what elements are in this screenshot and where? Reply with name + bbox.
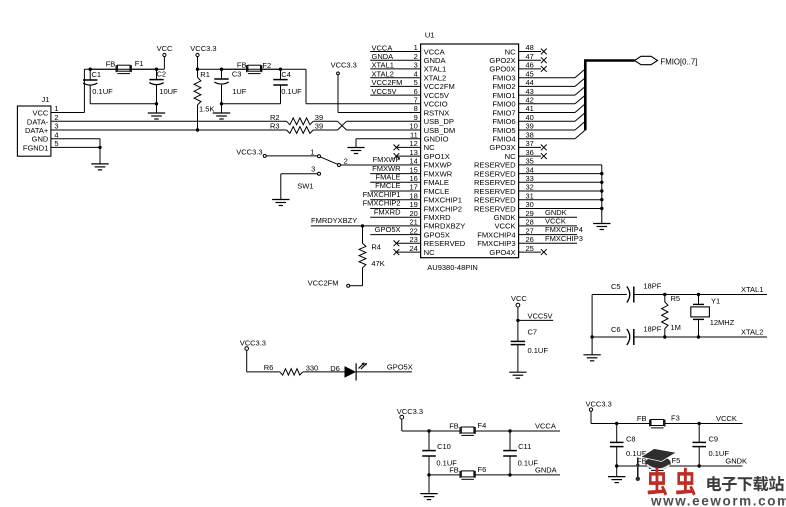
svg-text:8: 8 (414, 104, 418, 113)
wire C8 to ground (616, 466, 618, 477)
capacitor C2 10UF (149, 69, 178, 104)
svg-text:39: 39 (526, 122, 534, 131)
bus FMIO[0..7] (584, 61, 635, 131)
power port VCC3.3 R1 (190, 44, 216, 69)
power port VCC (157, 44, 173, 56)
svg-text:RESERVED: RESERVED (424, 239, 466, 248)
node GNDA (475, 465, 560, 476)
svg-text:D6: D6 (330, 364, 340, 373)
svg-text:FMIO1: FMIO1 (492, 91, 515, 100)
ground C7 (509, 372, 526, 378)
svg-text:DATA-: DATA- (27, 117, 49, 126)
wire DATA- (J1 pin2 to R2) (51, 120, 287, 122)
svg-text:23: 23 (409, 235, 417, 244)
svg-text:VCC5V: VCC5V (372, 87, 397, 96)
node VCCA (475, 422, 560, 433)
svg-text:FMXWP: FMXWP (373, 155, 401, 164)
svg-text:FMRDXBZY: FMRDXBZY (424, 222, 466, 231)
svg-text:U1: U1 (425, 31, 435, 40)
wire C3-C4 bottom (220, 102, 281, 113)
svg-text:FGND1: FGND1 (23, 143, 48, 152)
svg-text:36: 36 (526, 148, 534, 157)
node FMXRD (U1 pin 20) (370, 207, 420, 217)
node FMXCHIP3 (U1 pin 26) (519, 234, 583, 243)
svg-text:GPO2X: GPO2X (489, 56, 515, 65)
svg-text:R2: R2 (270, 113, 280, 122)
svg-text:6: 6 (414, 87, 418, 96)
node XTAL1 (U1 pin 3) (370, 61, 420, 70)
svg-text:1: 1 (54, 104, 58, 113)
svg-text:FMXCHIP1: FMXCHIP1 (424, 196, 462, 205)
svg-text:GNDK: GNDK (725, 457, 747, 466)
wire XTAL1 net (592, 285, 767, 296)
svg-text:C3: C3 (232, 70, 242, 79)
svg-text:1: 1 (310, 147, 314, 156)
capacitor C5 18PF (611, 282, 662, 303)
svg-text:F1: F1 (135, 59, 144, 68)
svg-text:SW1: SW1 (297, 182, 313, 191)
svg-text:FMXWR: FMXWR (372, 164, 401, 173)
svg-text:GPO1X: GPO1X (424, 152, 450, 161)
capacitor C8 0.1UF (610, 424, 647, 467)
svg-text:39: 39 (315, 113, 323, 122)
svg-text:19: 19 (409, 200, 417, 209)
svg-text:3: 3 (311, 165, 315, 174)
svg-text:20: 20 (409, 209, 417, 218)
svg-text:43: 43 (526, 87, 534, 96)
svg-text:VCCIO: VCCIO (424, 100, 448, 109)
svg-text:RESERVED: RESERVED (474, 196, 516, 205)
capacitor C6 18PF (611, 324, 662, 345)
node FMXCHIP4 (U1 pin 27) (519, 225, 583, 234)
svg-text:NC: NC (424, 248, 435, 257)
svg-text:Y1: Y1 (711, 297, 720, 306)
resistor R6 330 (264, 363, 319, 375)
svg-text:USB_DM: USB_DM (424, 126, 456, 135)
resistor R3 39 (270, 122, 323, 134)
svg-text:17: 17 (409, 183, 417, 192)
svg-text:5: 5 (414, 78, 418, 87)
capacitor C4 0.1UF (273, 69, 302, 104)
svg-text:GNDK: GNDK (494, 213, 516, 222)
power port VCC (C7) (511, 294, 527, 307)
svg-text:FMXCHIP4: FMXCHIP4 (477, 230, 515, 239)
resistor R5 1M (662, 294, 681, 337)
svg-text:15: 15 (409, 165, 417, 174)
node VCC5V (U1 pin 6) (370, 87, 420, 96)
svg-text:7: 7 (414, 96, 418, 105)
svg-text:FMALE: FMALE (375, 173, 400, 182)
wire C1-C2 bottom (90, 102, 158, 113)
svg-text:R4: R4 (371, 243, 381, 252)
svg-text:VCC3.3: VCC3.3 (586, 399, 612, 408)
node GNDK (U1 pin 29) (519, 208, 577, 217)
svg-text:VCC2FM: VCC2FM (372, 78, 403, 87)
svg-text:0.1UF: 0.1UF (281, 87, 302, 96)
svg-text:C9: C9 (709, 434, 719, 443)
svg-text:RESERVED: RESERVED (474, 178, 516, 187)
svg-text:38: 38 (526, 130, 534, 139)
svg-text:16: 16 (409, 174, 417, 183)
svg-text:5: 5 (54, 139, 58, 148)
node VCCK (665, 414, 743, 425)
svg-text:FMXRD: FMXRD (374, 207, 401, 216)
svg-text:32: 32 (526, 183, 534, 192)
svg-text:47: 47 (526, 52, 534, 61)
svg-text:RSTNX: RSTNX (424, 108, 450, 117)
svg-text:FMXCHIP2: FMXCHIP2 (424, 204, 462, 213)
wire DATA+ (J1 pin3 to R3) (51, 128, 287, 131)
svg-text:XTAL1: XTAL1 (741, 285, 763, 294)
svg-text:46: 46 (526, 61, 534, 70)
svg-text:26: 26 (526, 235, 534, 244)
ground RESERVED (593, 224, 610, 230)
svg-text:FMIO6: FMIO6 (492, 117, 515, 126)
svg-text:NC: NC (505, 47, 516, 56)
wire J1 GND/FGND1 (51, 139, 102, 164)
capacitor C11 0.1UF (503, 431, 538, 475)
node FMXCHIP1 (U1 pin 18) (363, 190, 421, 200)
svg-text:RESERVED: RESERVED (474, 169, 516, 178)
svg-text:C10: C10 (437, 442, 451, 451)
wire USB crossover (313, 121, 420, 130)
svg-text:45: 45 (526, 69, 534, 78)
U1 pin numbers (409, 43, 533, 253)
watermark text chongchong (648, 468, 696, 496)
ground VCCA filter (420, 494, 437, 500)
wire SW1 pole (266, 155, 317, 157)
power port VCC3.3 SW1 (236, 147, 266, 157)
svg-text:VCC: VCC (511, 294, 527, 303)
ferrite bead F3 (637, 413, 680, 428)
svg-text:18PF: 18PF (643, 282, 661, 291)
ground crystal (583, 355, 600, 361)
svg-text:VCCK: VCCK (716, 414, 737, 423)
svg-text:14: 14 (409, 157, 417, 166)
svg-text:FMXWP: FMXWP (424, 161, 452, 170)
svg-text:FMIO0: FMIO0 (492, 100, 515, 109)
svg-text:R3: R3 (270, 122, 280, 131)
node GNDA (U1 pin 2) (370, 52, 420, 61)
svg-text:35: 35 (526, 157, 534, 166)
svg-text:11: 11 (410, 130, 418, 139)
wire C10 to ground (428, 475, 430, 494)
svg-text:FMXWR: FMXWR (424, 169, 453, 178)
svg-text:10: 10 (409, 122, 417, 131)
power port VCC3.3 LED (240, 338, 266, 350)
LED D6 (330, 362, 367, 380)
svg-text:VCC3.3: VCC3.3 (331, 61, 357, 70)
svg-text:GNDA: GNDA (372, 52, 394, 61)
node GPO5X (LED) (356, 362, 413, 372)
node GNDK (665, 457, 747, 468)
svg-text:29: 29 (526, 209, 534, 218)
svg-text:18: 18 (409, 191, 417, 200)
svg-text:C8: C8 (626, 434, 636, 443)
power port VCC3.3 (VCCA filter) (397, 407, 423, 419)
svg-text:GNDK: GNDK (545, 208, 567, 217)
svg-text:RESERVED: RESERVED (474, 187, 516, 196)
svg-text:VCC3.3: VCC3.3 (236, 147, 262, 156)
svg-text:FB: FB (237, 61, 247, 70)
svg-text:FMALE: FMALE (424, 178, 449, 187)
wire RESERVED pins 30-35 (519, 165, 604, 224)
svg-text:FB: FB (449, 422, 459, 431)
svg-text:3: 3 (54, 122, 58, 131)
svg-text:C7: C7 (528, 328, 538, 337)
svg-text:GPO0X: GPO0X (489, 65, 515, 74)
svg-text:F6: F6 (478, 465, 487, 474)
svg-text:FB: FB (637, 414, 647, 423)
svg-text:AU9380-48PIN: AU9380-48PIN (427, 263, 477, 272)
watermark text url (650, 493, 786, 507)
ground C3 (213, 113, 230, 119)
svg-text:GPO3X: GPO3X (489, 143, 515, 152)
wire VCC3.3 to C8 (591, 411, 642, 425)
svg-text:F5: F5 (672, 456, 681, 465)
svg-text:31: 31 (526, 191, 534, 200)
svg-text:R1: R1 (200, 70, 210, 79)
svg-text:VCC2FM: VCC2FM (424, 82, 455, 91)
svg-text:VCC5V: VCC5V (528, 311, 553, 320)
svg-text:30: 30 (526, 200, 534, 209)
capacitor C7 0.1UF (511, 320, 549, 372)
svg-text:12: 12 (409, 139, 417, 148)
svg-text:48: 48 (526, 43, 534, 52)
ferrite bead F6 (427, 465, 486, 479)
no-connect U1 pin47 (519, 57, 547, 63)
wire FMIO3 (U1 pin 45) (519, 69, 586, 78)
svg-text:42: 42 (526, 96, 534, 105)
svg-text:VCC5V: VCC5V (424, 91, 450, 100)
svg-text:FMCLE: FMCLE (424, 187, 450, 196)
svg-text:XTAL2: XTAL2 (741, 328, 763, 337)
svg-text:J1: J1 (42, 95, 50, 104)
svg-text:GPO4X: GPO4X (489, 248, 515, 257)
resistor R4 47K (350, 226, 385, 286)
no-connect U1 pin46 (519, 66, 547, 72)
svg-text:FB: FB (449, 466, 459, 475)
no-connect U1 pin24 (394, 249, 421, 255)
svg-text:34: 34 (526, 165, 534, 174)
svg-text:www.eeworm.com: www.eeworm.com (650, 493, 786, 507)
svg-text:C2: C2 (157, 70, 167, 79)
ground SW1 (272, 200, 289, 206)
wire R6 to D6 (303, 371, 345, 373)
node XTAL2 (U1 pin 4) (370, 70, 420, 79)
power port VCC2FM (308, 278, 350, 287)
wire FMIO1 (U1 pin 43) (519, 86, 586, 95)
svg-text:VCCA: VCCA (535, 422, 556, 431)
wire VCC3.3 to C10 (402, 419, 454, 433)
svg-text:FMIO2: FMIO2 (492, 82, 515, 91)
svg-text:RESERVED: RESERVED (474, 161, 516, 170)
wire VCCIO rail (196, 68, 421, 104)
svg-text:21: 21 (409, 218, 417, 227)
ferrite bead F4 (449, 421, 486, 435)
crystal Y1 12MHZ (691, 295, 735, 338)
wire crystal left leg (591, 295, 593, 355)
svg-text:GND: GND (32, 135, 49, 144)
no-connect U1 pin37 (519, 145, 547, 151)
svg-text:37: 37 (526, 139, 534, 148)
svg-text:VCC3.3: VCC3.3 (190, 44, 216, 53)
wire FMIO6 (U1 pin 40) (519, 113, 586, 122)
svg-text:FMXCHIP1: FMXCHIP1 (363, 190, 401, 199)
node VCC2FM (U1 pin 5) (370, 78, 420, 87)
svg-text:FMXCHIP2: FMXCHIP2 (363, 199, 401, 208)
capacitor C1 0.1UF (83, 69, 113, 104)
svg-text:FB: FB (106, 60, 116, 69)
svg-text:4: 4 (414, 69, 418, 78)
svg-text:GPO5X: GPO5X (387, 362, 413, 371)
svg-text:FMXRD: FMXRD (424, 213, 452, 222)
wire RSTNX (338, 75, 421, 113)
svg-text:F2: F2 (262, 61, 271, 70)
wire FMIO0 (U1 pin 42) (519, 95, 586, 104)
svg-text:3: 3 (414, 61, 418, 70)
power port VCC3.3 (VCCK filter) (586, 399, 612, 411)
svg-text:0.1UF: 0.1UF (528, 346, 549, 355)
watermark text site name (707, 476, 784, 491)
svg-text:1UF: 1UF (232, 87, 247, 96)
svg-text:13: 13 (409, 148, 417, 157)
svg-text:FMXCHIP3: FMXCHIP3 (545, 234, 583, 243)
svg-text:VCCA: VCCA (424, 47, 446, 56)
capacitor C10 0.1UF (422, 431, 457, 475)
svg-text:24: 24 (409, 244, 417, 253)
svg-text:FMIO5: FMIO5 (492, 126, 515, 135)
node VCCA (U1 pin 1) (370, 43, 420, 52)
svg-text:VCCK: VCCK (545, 217, 566, 226)
svg-text:FMIO[0..7]: FMIO[0..7] (661, 57, 698, 66)
svg-text:GPO5X: GPO5X (424, 230, 450, 239)
no-connect U1 pin25 (519, 249, 547, 255)
capacitor C3 1UF (214, 69, 246, 104)
watermark logo eeworm (636, 449, 677, 481)
svg-text:1.5K: 1.5K (199, 105, 214, 114)
wire VCC top rail (84, 57, 164, 71)
ground C2 (148, 113, 165, 119)
wire FMIO5 (U1 pin 39) (519, 121, 586, 130)
node VCC5V (516, 307, 553, 322)
svg-text:VCCA: VCCA (372, 43, 393, 52)
svg-text:FMIO7: FMIO7 (492, 108, 515, 117)
wire GNDIO (356, 139, 421, 148)
svg-text:2: 2 (54, 113, 58, 122)
svg-text:FMCLE: FMCLE (375, 181, 400, 190)
svg-text:F3: F3 (671, 413, 680, 422)
connector J1 (17, 95, 58, 156)
node FMXWR (U1 pin 15) (370, 164, 420, 174)
svg-text:C6: C6 (611, 325, 621, 334)
node FMXWP (U1 pin 14 label) (373, 155, 401, 164)
svg-text:FMIO3: FMIO3 (492, 74, 515, 83)
svg-text:DATA+: DATA+ (25, 126, 49, 135)
svg-text:VCC: VCC (157, 44, 173, 53)
svg-text:FMRDYXBZY: FMRDYXBZY (311, 216, 357, 225)
wire LED anode (247, 350, 280, 372)
svg-text:FMXCHIP3: FMXCHIP3 (477, 239, 515, 248)
svg-text:33: 33 (526, 174, 534, 183)
no-connect U1 pin23 (394, 240, 421, 246)
svg-text:XTAL2: XTAL2 (424, 74, 447, 83)
svg-text:27: 27 (526, 226, 534, 235)
svg-text:GNDIO: GNDIO (424, 135, 449, 144)
svg-text:NC: NC (424, 143, 435, 152)
svg-text:25: 25 (526, 244, 534, 253)
svg-text:10UF: 10UF (159, 87, 178, 96)
ground J1 (91, 164, 108, 170)
svg-text:GNDA: GNDA (424, 56, 447, 65)
svg-text:41: 41 (526, 104, 534, 113)
wire FMIO7 (U1 pin 41) (519, 104, 586, 113)
node FMRDYXBZY (U1 pin 21) (311, 216, 421, 227)
node FMCLE (U1 pin 17) (370, 181, 420, 191)
no-connect U1 pin12 (394, 145, 421, 151)
svg-text:FMIO4: FMIO4 (492, 135, 515, 144)
no-connect U1 pin36 (519, 153, 547, 159)
svg-text:330: 330 (306, 363, 319, 372)
svg-text:FMXCHIP4: FMXCHIP4 (545, 225, 583, 234)
wire SW1 pin3 to ground (281, 174, 318, 200)
svg-text:C1: C1 (92, 70, 102, 79)
svg-text:18PF: 18PF (643, 324, 661, 333)
wire FMIO4 (U1 pin 38) (519, 130, 586, 139)
svg-text:VCC3.3: VCC3.3 (397, 407, 423, 416)
power port VCC3.3 RSTNX (331, 61, 357, 75)
switch SW1 (297, 147, 348, 190)
svg-text:28: 28 (526, 218, 534, 227)
node FMXCHIP2 (U1 pin 19) (363, 199, 421, 209)
wire J1 pin1 VCC (51, 69, 85, 112)
no-connect U1 pin13 (394, 153, 421, 159)
svg-text:VCC3.3: VCC3.3 (240, 338, 266, 347)
wire SW1 pin2 FMXWP (341, 164, 421, 166)
svg-text:39: 39 (315, 122, 323, 131)
svg-text:40: 40 (526, 113, 534, 122)
svg-text:F4: F4 (478, 421, 487, 430)
svg-text:4: 4 (54, 130, 58, 139)
svg-text:XTAL2: XTAL2 (372, 70, 394, 79)
ferrite bead F1 (90, 59, 156, 74)
ferrite bead F2 (222, 61, 281, 74)
node VCCK (U1 pin 28) (519, 217, 577, 226)
svg-text:VCCK: VCCK (494, 222, 515, 231)
svg-text:44: 44 (526, 78, 534, 87)
no-connect U1 pin48 (519, 49, 547, 55)
svg-text:NC: NC (505, 152, 516, 161)
ground GNDIO (347, 148, 364, 154)
svg-text:R6: R6 (264, 363, 274, 372)
svg-text:22: 22 (409, 226, 417, 235)
ground VCCK filter (608, 477, 625, 483)
svg-text:GNDA: GNDA (535, 465, 557, 474)
svg-text:VCC: VCC (32, 109, 48, 118)
op-amp U1 AU9380-48PIN body (421, 31, 519, 272)
svg-text:2: 2 (344, 157, 348, 166)
resistor R2 39 (270, 113, 323, 125)
svg-text:VCC2FM: VCC2FM (308, 278, 339, 287)
svg-text:1: 1 (414, 43, 418, 52)
wire XTAL2 net (590, 328, 767, 339)
wire FMIO2 (U1 pin 44) (519, 78, 586, 87)
svg-text:C11: C11 (518, 442, 531, 451)
svg-text:R5: R5 (671, 294, 681, 303)
svg-text:XTAL1: XTAL1 (424, 65, 447, 74)
svg-text:RESERVED: RESERVED (474, 204, 516, 213)
svg-text:12MHZ: 12MHZ (710, 318, 735, 327)
